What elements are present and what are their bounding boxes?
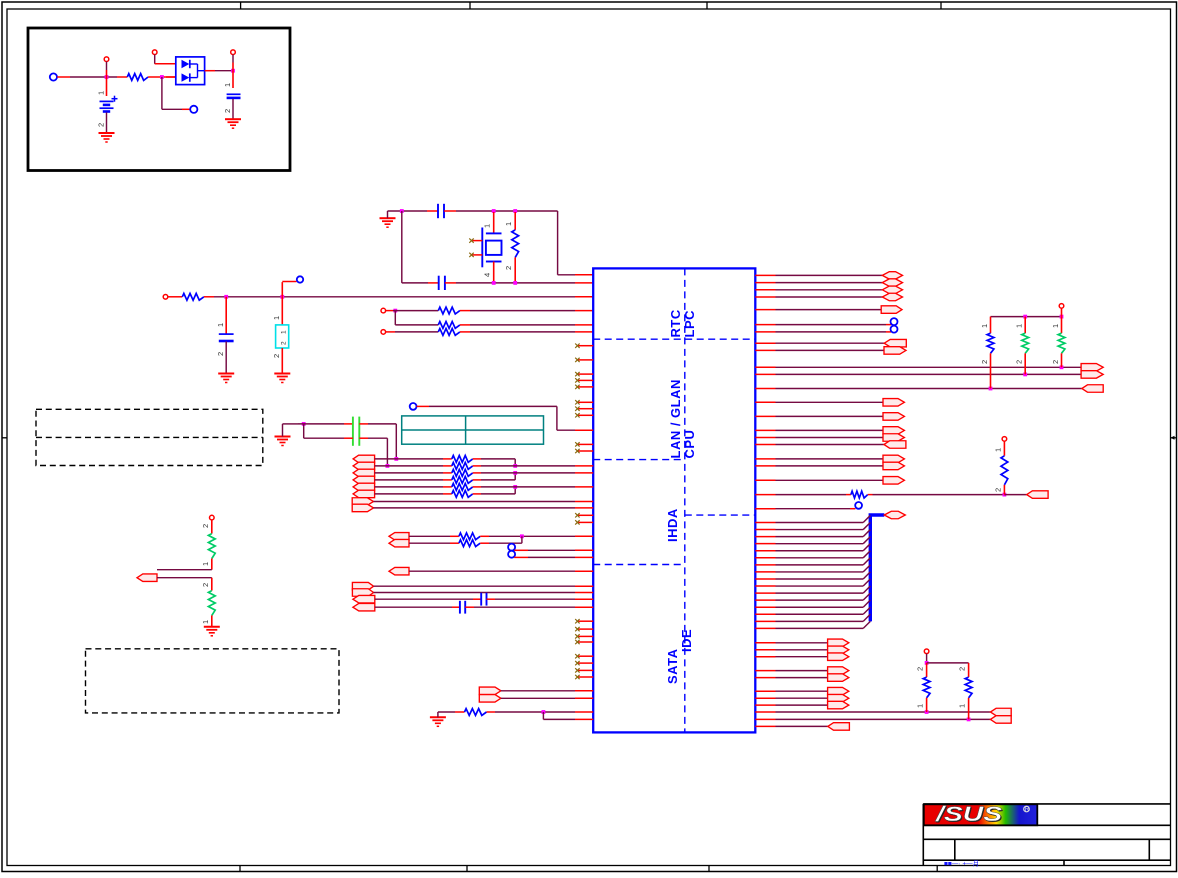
svg-text:1: 1 bbox=[483, 224, 492, 228]
svg-text:1: 1 bbox=[281, 330, 288, 334]
svg-text:2: 2 bbox=[958, 667, 967, 671]
svg-text:R: R bbox=[1025, 807, 1030, 813]
svg-text:1: 1 bbox=[504, 222, 513, 226]
svg-text:2: 2 bbox=[1015, 360, 1024, 364]
svg-text:SATA: SATA bbox=[665, 648, 680, 684]
svg-text:2: 2 bbox=[272, 354, 281, 358]
svg-text:1: 1 bbox=[201, 620, 210, 624]
svg-text:1: 1 bbox=[994, 448, 1003, 452]
svg-text:IDE: IDE bbox=[679, 629, 694, 652]
svg-text:1: 1 bbox=[216, 323, 225, 327]
svg-text:1: 1 bbox=[272, 316, 281, 320]
svg-text:1: 1 bbox=[980, 324, 989, 328]
svg-text:RTC: RTC bbox=[668, 309, 683, 337]
svg-text:2: 2 bbox=[97, 123, 106, 127]
svg-text:1: 1 bbox=[201, 562, 210, 566]
svg-text:1: 1 bbox=[97, 91, 106, 95]
svg-text:1: 1 bbox=[1051, 324, 1060, 328]
svg-text:1: 1 bbox=[958, 704, 967, 708]
svg-text:CPU: CPU bbox=[682, 430, 697, 459]
svg-text:LAN / GLAN: LAN / GLAN bbox=[668, 379, 683, 458]
svg-text:LPC: LPC bbox=[682, 310, 697, 338]
svg-text:2: 2 bbox=[281, 341, 288, 345]
svg-text:2: 2 bbox=[994, 488, 1003, 492]
svg-text:2: 2 bbox=[201, 583, 210, 587]
svg-text:/SUS: /SUS bbox=[935, 802, 1003, 826]
svg-text:2: 2 bbox=[216, 352, 225, 356]
svg-text:1: 1 bbox=[916, 704, 925, 708]
svg-text:IHDA: IHDA bbox=[665, 508, 680, 542]
svg-text:1: 1 bbox=[1015, 324, 1024, 328]
svg-text:2: 2 bbox=[223, 109, 232, 113]
svg-text:2: 2 bbox=[980, 360, 989, 364]
svg-text:2: 2 bbox=[916, 667, 925, 671]
svg-text:2: 2 bbox=[1051, 360, 1060, 364]
svg-text:■■—· +—月: ■■—· +—月 bbox=[944, 860, 979, 868]
svg-text:4: 4 bbox=[483, 273, 492, 277]
svg-text:2: 2 bbox=[201, 524, 210, 528]
svg-text:2: 2 bbox=[504, 266, 513, 270]
svg-text:1: 1 bbox=[223, 83, 232, 87]
